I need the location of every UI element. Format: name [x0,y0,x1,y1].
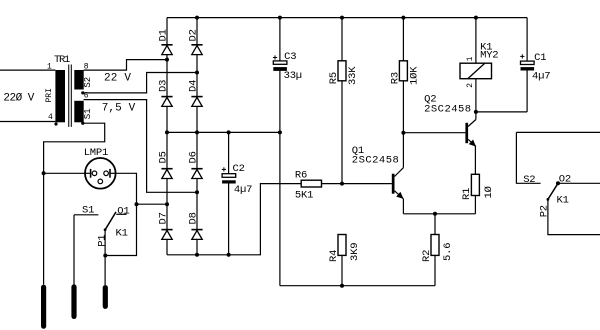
svg-text:S1: S1 [82,205,94,217]
svg-text:K1: K1 [116,228,128,240]
node D1/D3 AC tap [165,58,169,62]
transistor Q2 [465,112,476,147]
transformer TR1 secondary S1 winding [74,101,83,123]
wire bridge bottom rail [167,184,301,255]
node lamp left junction [42,171,46,175]
svg-text:2SC2458: 2SC2458 [424,104,471,116]
diode D7 [161,230,172,240]
svg-text:S1: S1 [83,108,93,119]
svg-text:TR1: TR1 [54,54,70,66]
node O2 contact [556,181,560,185]
switch K1b blade P2 [547,183,600,234]
svg-text:K1: K1 [557,195,569,207]
lamp LMP1 [85,158,116,189]
svg-text:R1: R1 [461,188,473,200]
node S1 bottom dot [81,122,84,125]
transformer TR1 core [68,65,70,127]
switch K1 S1 terminal [74,215,98,285]
transformer TR1 primary winding [55,70,65,122]
svg-text:22 V: 22 V [104,73,131,85]
node Q1 collector / Q2 base [401,131,405,135]
diode D8 [191,230,202,240]
node R3 top rail [401,16,405,20]
node C2 bottom [227,253,231,257]
wire lamp left [44,172,85,174]
wire mains L to pin 1 [0,69,55,71]
capacitor C2 [222,132,236,254]
plug pin 2 [71,287,76,317]
svg-text:C1: C1 [534,52,546,64]
node R5 top rail [340,16,344,20]
svg-text:22Ø V: 22Ø V [3,92,34,104]
node D2 top rail [195,16,199,20]
resistor R1 [471,146,479,214]
resistor R5 [338,18,346,184]
svg-text:4µ7: 4µ7 [234,184,252,196]
wire D1/D3/D5/D7 column [166,18,168,255]
wire top rail +22V [167,17,527,19]
plug pin 1 [41,287,46,326]
svg-text:R6: R6 [295,169,307,181]
switch K1 blade P1 [104,212,116,285]
svg-text:MY2: MY2 [480,50,498,62]
capacitor C1 [520,18,534,112]
wire pin8 to D1/D3 tap [84,60,167,71]
node R6/R4/R5 junction [340,182,344,186]
svg-text:1ØK: 1ØK [409,66,421,85]
plug pin 3 [103,288,108,307]
wire Q1 emitter row [403,213,475,215]
wire ground rail bottom [280,285,435,287]
svg-text:1Ø: 1Ø [483,186,495,198]
svg-text:P2: P2 [539,205,551,217]
svg-text:C2: C2 [233,163,245,175]
svg-text:O1: O1 [117,206,129,218]
diode D6 [191,169,202,179]
wire O1 column to D5/D7 tap [137,203,168,205]
wire relay pin2 to C1 [476,111,527,113]
node rail-C2 [227,130,231,134]
switch K1b S2 terminal [516,132,600,183]
node rail-D6 [195,130,199,134]
svg-text:2: 2 [466,83,475,88]
wire Q2 base [403,132,465,134]
node rail-C3col [278,130,282,134]
svg-text:R3: R3 [389,72,401,84]
svg-text:5.6: 5.6 [442,243,454,261]
node S2 bottom dot [81,91,84,94]
svg-text:PRI: PRI [45,88,54,102]
svg-text:C3: C3 [284,51,296,63]
switch K1 O1 contact [116,213,126,215]
node Q2 collector [474,110,478,114]
svg-text:2SC2458: 2SC2458 [352,154,399,166]
svg-text:33µ: 33µ [284,70,302,82]
wire lamp right to O1 column [105,173,136,255]
diode D5 [161,169,172,179]
switch K1b O2 contact [558,182,600,184]
resistor R2 [431,214,439,286]
transistor Q1 [392,133,404,214]
wire 7.5V bridge output rail [167,131,280,133]
node C3 top rail [278,16,282,20]
wire pin6 to D6/D8 tap [84,100,197,193]
node D6/D8 AC tap [195,190,199,194]
svg-text:1: 1 [466,56,475,61]
node O1 column junction [135,202,139,206]
diode D4 [191,97,202,107]
node R4 bottom [340,284,344,288]
svg-text:R5: R5 [328,72,340,84]
wire S2 bottom to D2/D4 tap [83,73,197,93]
wire mains N to pin 4 [0,121,55,123]
svg-text:33K: 33K [347,66,359,85]
node rail-D5 [165,130,169,134]
svg-text:S2: S2 [83,77,93,88]
svg-text:4: 4 [48,113,53,122]
svg-text:5K1: 5K1 [295,190,313,202]
resistor R6 [301,180,392,187]
svg-text:S2: S2 [523,174,535,186]
node D8 bottom [195,253,199,257]
node D2/D4 AC tap [195,71,199,75]
svg-text:R2: R2 [421,250,433,262]
capacitor C3 [273,18,287,286]
wire D2/D4/D6/D8 column [196,18,198,255]
svg-text:P1: P1 [97,235,109,247]
relay K1 coil [460,18,492,112]
resistor R4 [338,235,346,286]
svg-text:R4: R4 [328,250,340,262]
diode D3 [161,97,172,107]
node pin4 dot [54,122,57,125]
transformer TR1 secondary S2 winding [74,70,83,90]
svg-text:3K9: 3K9 [349,243,361,261]
diode D1 [161,45,172,55]
svg-text:7,5 V: 7,5 V [102,103,136,115]
svg-text:O2: O2 [559,174,571,186]
node relay top rail [474,16,478,20]
svg-text:4µ7: 4µ7 [532,71,550,83]
node R2 top [433,212,437,216]
svg-text:LMP1: LMP1 [84,147,108,159]
wire S1 bottom to plug pin 1 [44,123,105,284]
diode D2 [191,45,202,55]
resistor R3 [399,18,407,133]
node P1 bottom junction [103,254,107,258]
node D5/D7 AC tap [165,202,169,206]
